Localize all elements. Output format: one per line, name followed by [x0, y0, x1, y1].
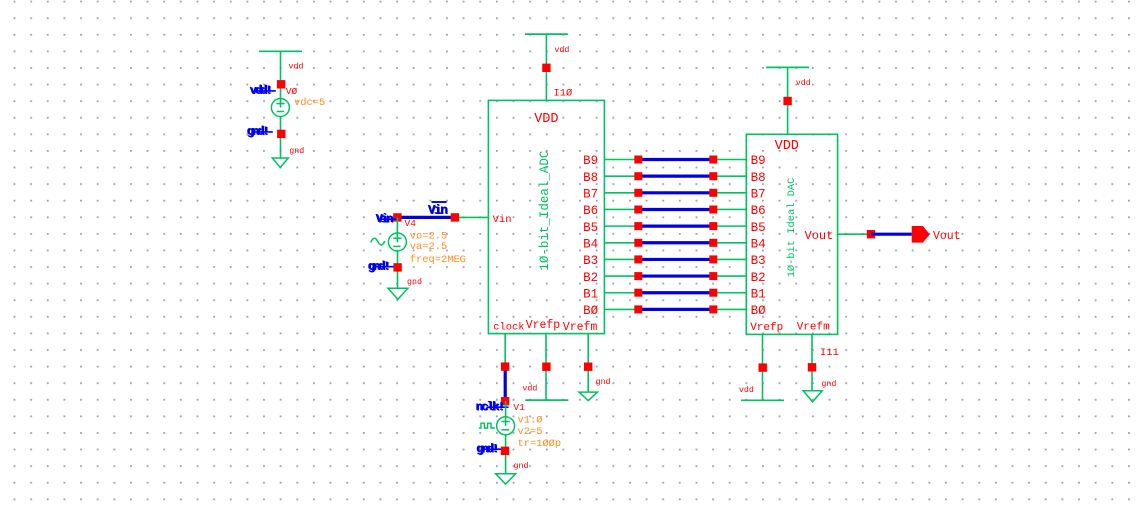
- svg-text:vdd: vdd: [554, 45, 569, 55]
- wire B8 bus blue: [638, 175, 713, 178]
- V4 plus sign: [393, 237, 401, 239]
- wire B5 bus blue: [638, 225, 713, 228]
- junction square B0 left: [634, 305, 642, 313]
- svg-text:Vrefp: Vrefp: [526, 319, 561, 332]
- power symbol vdd (ADC): [525, 33, 568, 35]
- svg-text:Vout: Vout: [933, 230, 961, 243]
- wire clock green: [504, 334, 506, 367]
- svg-text:vdd: vdd: [289, 61, 304, 71]
- junction square B9 right: [709, 156, 717, 164]
- svg-text:B1: B1: [751, 287, 766, 301]
- svg-text:Vin: Vin: [429, 204, 448, 218]
- net label gnd! (V0): [247, 125, 269, 140]
- output pin arrow Vout: [912, 226, 930, 243]
- junction square B5 right: [709, 222, 717, 230]
- wire Vin green to ADC: [455, 216, 489, 218]
- wire B5 DAC stub: [713, 225, 746, 227]
- wire Vout blue: [871, 233, 912, 236]
- wire clock blue: [504, 367, 507, 402]
- wire Vrefm (ADC) to gnd: [587, 334, 589, 393]
- svg-text:gnd: gnd: [821, 379, 836, 389]
- pin square ADC vdd: [542, 64, 550, 72]
- junction square clock bottom: [501, 397, 509, 405]
- wire Vin blue: [397, 216, 455, 219]
- wire B7 ADC stub: [604, 192, 638, 194]
- wire B3 DAC stub: [713, 258, 746, 260]
- pulse glyph: [479, 423, 495, 428]
- junction square B2 left: [634, 272, 642, 280]
- svg-text:B5: B5: [583, 221, 598, 235]
- pin square Vrefm (DAC): [808, 363, 816, 371]
- wire B5 ADC stub: [604, 225, 638, 227]
- vsource V4 circle: [388, 233, 406, 251]
- net label gnd! (V4): [368, 259, 390, 274]
- wire B0 bus blue: [638, 308, 713, 311]
- svg-text:B6: B6: [583, 204, 598, 218]
- ground symbol (V4): [388, 288, 408, 299]
- svg-text:B8: B8: [751, 171, 766, 185]
- wire B2 DAC stub: [713, 275, 746, 277]
- svg-text:v1:Ø: v1:Ø: [518, 414, 543, 426]
- junction square Vout: [867, 230, 875, 238]
- pin square Vrefm (ADC): [584, 363, 592, 371]
- svg-text:B2: B2: [751, 271, 766, 285]
- svg-text:v2=5: v2=5: [518, 426, 543, 438]
- V0 minus sign: [277, 111, 284, 113]
- wire B7 bus blue: [638, 191, 713, 194]
- wire B9 ADC stub: [604, 159, 638, 161]
- junction square B8 right: [709, 172, 717, 180]
- svg-text:B6: B6: [751, 204, 766, 218]
- svg-text:B3: B3: [751, 254, 766, 268]
- wire V1 minus to ground: [505, 435, 507, 474]
- power symbol vdd flipped (ADC Vrefp): [525, 399, 568, 401]
- wire B2 ADC stub: [604, 275, 638, 277]
- svg-text:va=2.5: va=2.5: [410, 241, 447, 253]
- wire Vrefm (DAC) to gnd: [811, 334, 813, 390]
- wire B6 bus blue: [638, 208, 713, 211]
- wire B3 ADC stub: [604, 258, 638, 260]
- wire B0 DAC stub: [713, 308, 746, 310]
- svg-text:B7: B7: [583, 188, 598, 202]
- wire Vrefp (ADC) to vdd: [545, 334, 547, 401]
- svg-text:1Ø-bit Ideal DAC: 1Ø-bit Ideal DAC: [786, 178, 798, 278]
- junction square B4 right: [709, 239, 717, 247]
- V1 minus sign: [502, 429, 510, 431]
- wire vdd to V0 plus: [280, 51, 282, 107]
- svg-text:VDD: VDD: [534, 112, 558, 127]
- svg-text:BØ: BØ: [751, 304, 767, 318]
- wire B8 DAC stub: [713, 175, 746, 177]
- svg-text:B4: B4: [751, 237, 766, 251]
- V0 plus sign: [276, 103, 284, 105]
- svg-text:gnd: gnd: [407, 277, 422, 287]
- vsource V0 circle: [271, 99, 289, 117]
- net label nclk!: [476, 400, 505, 415]
- svg-text:Vrefp: Vrefp: [750, 322, 783, 334]
- wire vdd to DAC VDD: [787, 67, 789, 134]
- wire B1 ADC stub: [604, 292, 638, 294]
- junction square B4 left: [634, 239, 642, 247]
- ground symbol (ADC Vrefm): [579, 392, 598, 401]
- junction square clock top: [501, 362, 509, 370]
- svg-text:tr=1ØØp: tr=1ØØp: [518, 438, 562, 450]
- net label gnd! (V1): [476, 442, 498, 457]
- wire B8 ADC stub: [604, 175, 638, 177]
- svg-text:vdd: vdd: [522, 384, 537, 394]
- junction square B6 left: [634, 206, 642, 214]
- svg-text:gnd: gnd: [596, 377, 611, 387]
- pin square Vrefp (ADC): [542, 363, 550, 371]
- svg-text:B4: B4: [583, 237, 598, 251]
- junction square V4 output: [393, 213, 401, 221]
- wire B9 DAC stub: [713, 159, 746, 161]
- svg-text:gnd: gnd: [289, 146, 304, 156]
- svg-text:VØ: VØ: [286, 86, 298, 97]
- wire vdd to ADC VDD: [545, 34, 547, 100]
- wire Vout green: [838, 233, 871, 235]
- wire V1 top stem: [505, 401, 507, 426]
- net label vdd!: [250, 84, 272, 99]
- power symbol vdd (DAC): [766, 66, 809, 68]
- wire B0 ADC stub: [604, 308, 638, 310]
- power symbol vdd (V0 top): [259, 50, 302, 52]
- svg-text:freq=2MEG: freq=2MEG: [410, 254, 466, 266]
- svg-text:V4: V4: [405, 218, 417, 229]
- wire B6 ADC stub: [604, 208, 638, 210]
- svg-text:vdc=5: vdc=5: [294, 97, 325, 109]
- net name Vin (bold over wire): [428, 203, 448, 218]
- junction square B9 left: [634, 156, 642, 164]
- junction square B7 left: [634, 189, 642, 197]
- V1 plus sign: [501, 421, 509, 423]
- ground symbol (DAC Vrefm): [803, 391, 822, 402]
- svg-text:I11: I11: [820, 347, 839, 359]
- svg-text:clock: clock: [493, 322, 524, 334]
- svg-text:vdd: vdd: [796, 78, 811, 88]
- pin square Vrefp (DAC): [759, 363, 767, 371]
- svg-text:B9: B9: [583, 154, 598, 168]
- svg-text:I1Ø: I1Ø: [554, 87, 573, 99]
- wire V4 minus to ground: [397, 251, 399, 288]
- junction square B7 right: [709, 189, 717, 197]
- junction square B5 left: [634, 222, 642, 230]
- svg-text:Vrefm: Vrefm: [563, 321, 598, 334]
- junction square B1 left: [634, 289, 642, 297]
- svg-text:gnd: gnd: [514, 461, 529, 471]
- wire B1 DAC stub: [713, 292, 746, 294]
- svg-text:B2: B2: [583, 271, 598, 285]
- svg-text:B3: B3: [583, 254, 598, 268]
- vsource V1 circle: [497, 417, 515, 435]
- svg-text:Vrefm: Vrefm: [797, 322, 830, 334]
- svg-text:B9: B9: [751, 154, 766, 168]
- svg-text:B5: B5: [751, 221, 766, 235]
- svg-text:V1: V1: [513, 402, 525, 413]
- wire B7 DAC stub: [713, 192, 746, 194]
- wire B4 ADC stub: [604, 242, 638, 244]
- wire B9 bus blue: [638, 158, 713, 161]
- ADC body I10: [488, 100, 604, 333]
- sine glyph: [371, 238, 385, 245]
- junction square B3 right: [709, 255, 717, 263]
- wire B6 DAC stub: [713, 208, 746, 210]
- svg-text:B1: B1: [583, 287, 598, 301]
- net label Vin scribble: [376, 212, 394, 227]
- junction square B3 left: [634, 255, 642, 263]
- wire Vrefp (DAC) to vdd: [762, 334, 764, 400]
- wire V0 minus to ground: [280, 117, 282, 159]
- svg-text:Vout: Vout: [805, 229, 834, 243]
- svg-text:vdd: vdd: [739, 385, 754, 395]
- ground symbol (V0): [272, 158, 288, 168]
- wire B4 DAC stub: [713, 242, 746, 244]
- DAC body I11: [746, 134, 837, 334]
- junction square Vin wire: [451, 213, 459, 221]
- svg-text:B7: B7: [751, 188, 766, 202]
- pin square V1 minus: [501, 447, 509, 455]
- wire B3 bus blue: [638, 258, 713, 261]
- wire B1 bus blue: [638, 291, 713, 294]
- svg-text:VDD: VDD: [775, 139, 799, 154]
- svg-text:Vin: Vin: [493, 214, 512, 226]
- wire B4 bus blue: [638, 241, 713, 244]
- pin square DAC vdd: [783, 97, 791, 105]
- pin square V0 plus: [277, 80, 285, 88]
- svg-text:1Ø-bit_Ideal_ADC: 1Ø-bit_Ideal_ADC: [538, 151, 552, 271]
- svg-text:B8: B8: [583, 171, 598, 185]
- power symbol vdd flipped (DAC Vrefp): [741, 399, 784, 401]
- svg-text:BØ: BØ: [583, 304, 599, 318]
- junction square B2 right: [709, 272, 717, 280]
- pin square V4 minus: [393, 263, 401, 271]
- ground symbol (V1): [496, 474, 516, 485]
- V4 minus sign: [393, 245, 400, 247]
- wire B2 bus blue: [638, 274, 713, 277]
- junction square B1 right: [709, 289, 717, 297]
- junction square B0 right: [709, 305, 717, 313]
- wire V4 top stem: [396, 217, 398, 242]
- pin square V0 minus: [277, 130, 285, 138]
- junction square B8 left: [634, 172, 642, 180]
- junction square B6 right: [709, 206, 717, 214]
